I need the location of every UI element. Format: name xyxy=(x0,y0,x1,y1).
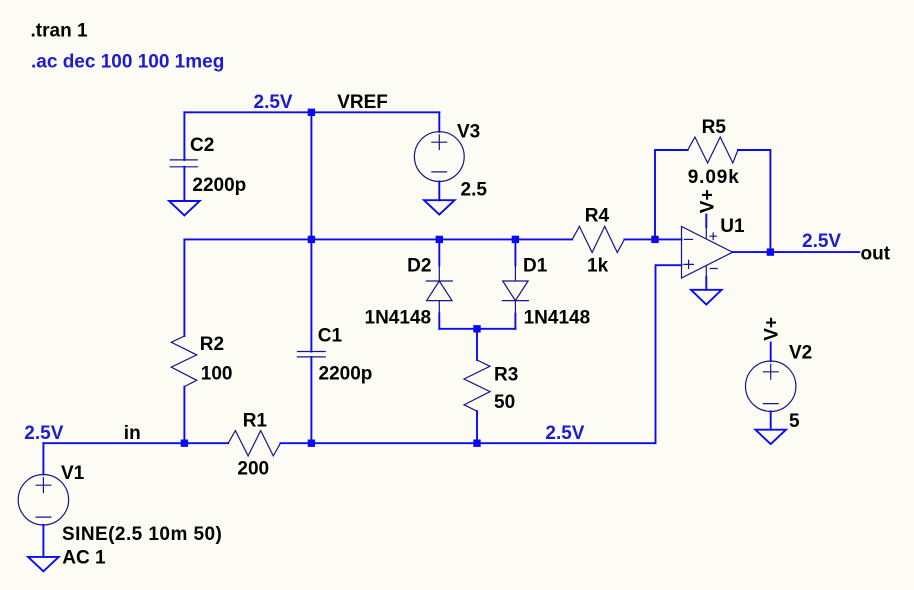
svg-text:2200p: 2200p xyxy=(192,175,246,196)
wire top rail xyxy=(184,111,439,113)
svg-text:VREF: VREF xyxy=(337,92,388,113)
op-amp plus input mark xyxy=(684,260,694,268)
svg-text:2.5: 2.5 xyxy=(461,179,488,200)
svg-text:V+: V+ xyxy=(762,317,783,341)
wire main mid rail xyxy=(184,238,572,240)
svg-text:R4: R4 xyxy=(585,206,610,227)
diode D1 xyxy=(502,266,528,314)
wire D1 bottom lead xyxy=(514,314,516,329)
wire R2 bottom lead xyxy=(183,387,185,444)
wire C1 bottom lead xyxy=(310,357,312,443)
junction mid rail x=311 xyxy=(308,236,315,243)
ground (C2) xyxy=(169,201,200,215)
ground (V1) xyxy=(28,557,59,571)
svg-text:100: 100 xyxy=(201,363,233,384)
junction bottom rail x=184 xyxy=(181,440,188,447)
voltage source V3 xyxy=(414,132,464,182)
svg-text:50: 50 xyxy=(494,392,515,413)
resistor R4 xyxy=(572,226,624,252)
wire V1 top lead xyxy=(42,443,44,474)
ground (V3) xyxy=(424,200,455,214)
junction output node xyxy=(767,248,774,255)
wire C1 top lead xyxy=(310,239,312,351)
svg-text:D1: D1 xyxy=(523,256,548,277)
voltage source V2 xyxy=(746,361,796,411)
op-amp V- pin xyxy=(705,266,707,278)
resistor R1 xyxy=(228,431,280,456)
wire D2 top lead xyxy=(438,239,440,265)
svg-text:C1: C1 xyxy=(318,325,343,346)
svg-text:200: 200 xyxy=(237,458,269,479)
diode D2 xyxy=(426,266,452,314)
svg-text:1k: 1k xyxy=(587,255,609,276)
wire diode bottom rail xyxy=(439,328,515,330)
svg-text:V1: V1 xyxy=(61,463,85,484)
svg-text:2.5V: 2.5V xyxy=(254,92,293,113)
op-amp V+ pin xyxy=(705,215,707,228)
op-amp V+ power mark xyxy=(710,233,717,240)
wire main vertical x=311 xyxy=(310,112,312,239)
capacitor C2 xyxy=(170,160,197,167)
wire output xyxy=(733,251,860,253)
wire bottom rail right xyxy=(280,442,655,444)
junction mid rail x=439 xyxy=(436,236,443,243)
junction inverting input node xyxy=(651,236,658,243)
wire non-inverting riser xyxy=(656,265,682,443)
wire C2 top lead xyxy=(183,112,185,160)
svg-text:1N4148: 1N4148 xyxy=(524,308,591,329)
wire R5 left leg xyxy=(655,150,688,239)
svg-text:2200p: 2200p xyxy=(319,363,373,384)
svg-text:SINE(2.5 10m 50): SINE(2.5 10m 50) xyxy=(62,524,222,545)
ground (V2) xyxy=(755,430,786,444)
op-amp minus input mark xyxy=(685,238,693,240)
op-amp V- power mark xyxy=(710,268,717,270)
wire R5 right leg xyxy=(738,150,771,252)
svg-text:V2: V2 xyxy=(789,342,812,363)
resistor R3 xyxy=(464,360,490,411)
svg-text:U1: U1 xyxy=(720,216,745,237)
svg-text:5: 5 xyxy=(789,411,800,432)
svg-text:2.5V: 2.5V xyxy=(802,231,841,252)
wire R4 right xyxy=(624,238,681,240)
svg-text:C2: C2 xyxy=(190,135,214,156)
wire R2 top lead xyxy=(183,239,185,336)
svg-text:D2: D2 xyxy=(407,256,431,277)
svg-text:.ac dec 100 100 1meg: .ac dec 100 100 1meg xyxy=(31,51,224,72)
resistor R2 xyxy=(171,336,196,387)
svg-text:1N4148: 1N4148 xyxy=(365,308,432,329)
svg-text:.tran 1: .tran 1 xyxy=(31,20,88,41)
svg-text:2.5V: 2.5V xyxy=(545,423,584,444)
svg-text:R3: R3 xyxy=(494,365,518,386)
svg-text:V+: V+ xyxy=(697,189,718,213)
svg-text:AC 1: AC 1 xyxy=(62,548,106,569)
junction bottom rail x=311 xyxy=(308,440,315,447)
wire V2 bottom lead xyxy=(770,411,772,429)
wire R3 top lead xyxy=(476,329,478,360)
junction top rail x=311 xyxy=(308,109,315,116)
wire V1 bottom lead xyxy=(42,525,44,557)
svg-text:R1: R1 xyxy=(243,410,268,431)
wire V3 bottom lead xyxy=(438,182,440,201)
svg-text:9.09k: 9.09k xyxy=(688,167,740,188)
wire D2 bottom lead xyxy=(438,314,440,329)
op-amp U1 xyxy=(682,227,733,279)
wire V2 top stub xyxy=(770,343,772,362)
capacitor C1 xyxy=(298,352,326,357)
svg-text:out: out xyxy=(861,244,891,265)
junction mid rail x=515 xyxy=(512,236,519,243)
wire D1 top lead xyxy=(514,239,516,265)
resistor R5 xyxy=(688,137,738,163)
svg-text:V3: V3 xyxy=(457,122,480,143)
svg-text:in: in xyxy=(124,423,141,444)
svg-text:R2: R2 xyxy=(200,334,224,355)
junction bottom rail x=477 xyxy=(473,440,480,447)
ground (op-amp V-) xyxy=(691,290,722,305)
wire bottom rail xyxy=(43,442,228,444)
wire C2 bottom lead xyxy=(183,167,185,201)
wire R3 bottom lead xyxy=(476,411,478,443)
voltage source V1 xyxy=(18,475,68,525)
svg-text:R5: R5 xyxy=(702,117,727,138)
junction diode rail x=477 xyxy=(473,325,480,332)
wire V3 top lead xyxy=(438,112,440,132)
svg-text:2.5V: 2.5V xyxy=(24,423,63,444)
